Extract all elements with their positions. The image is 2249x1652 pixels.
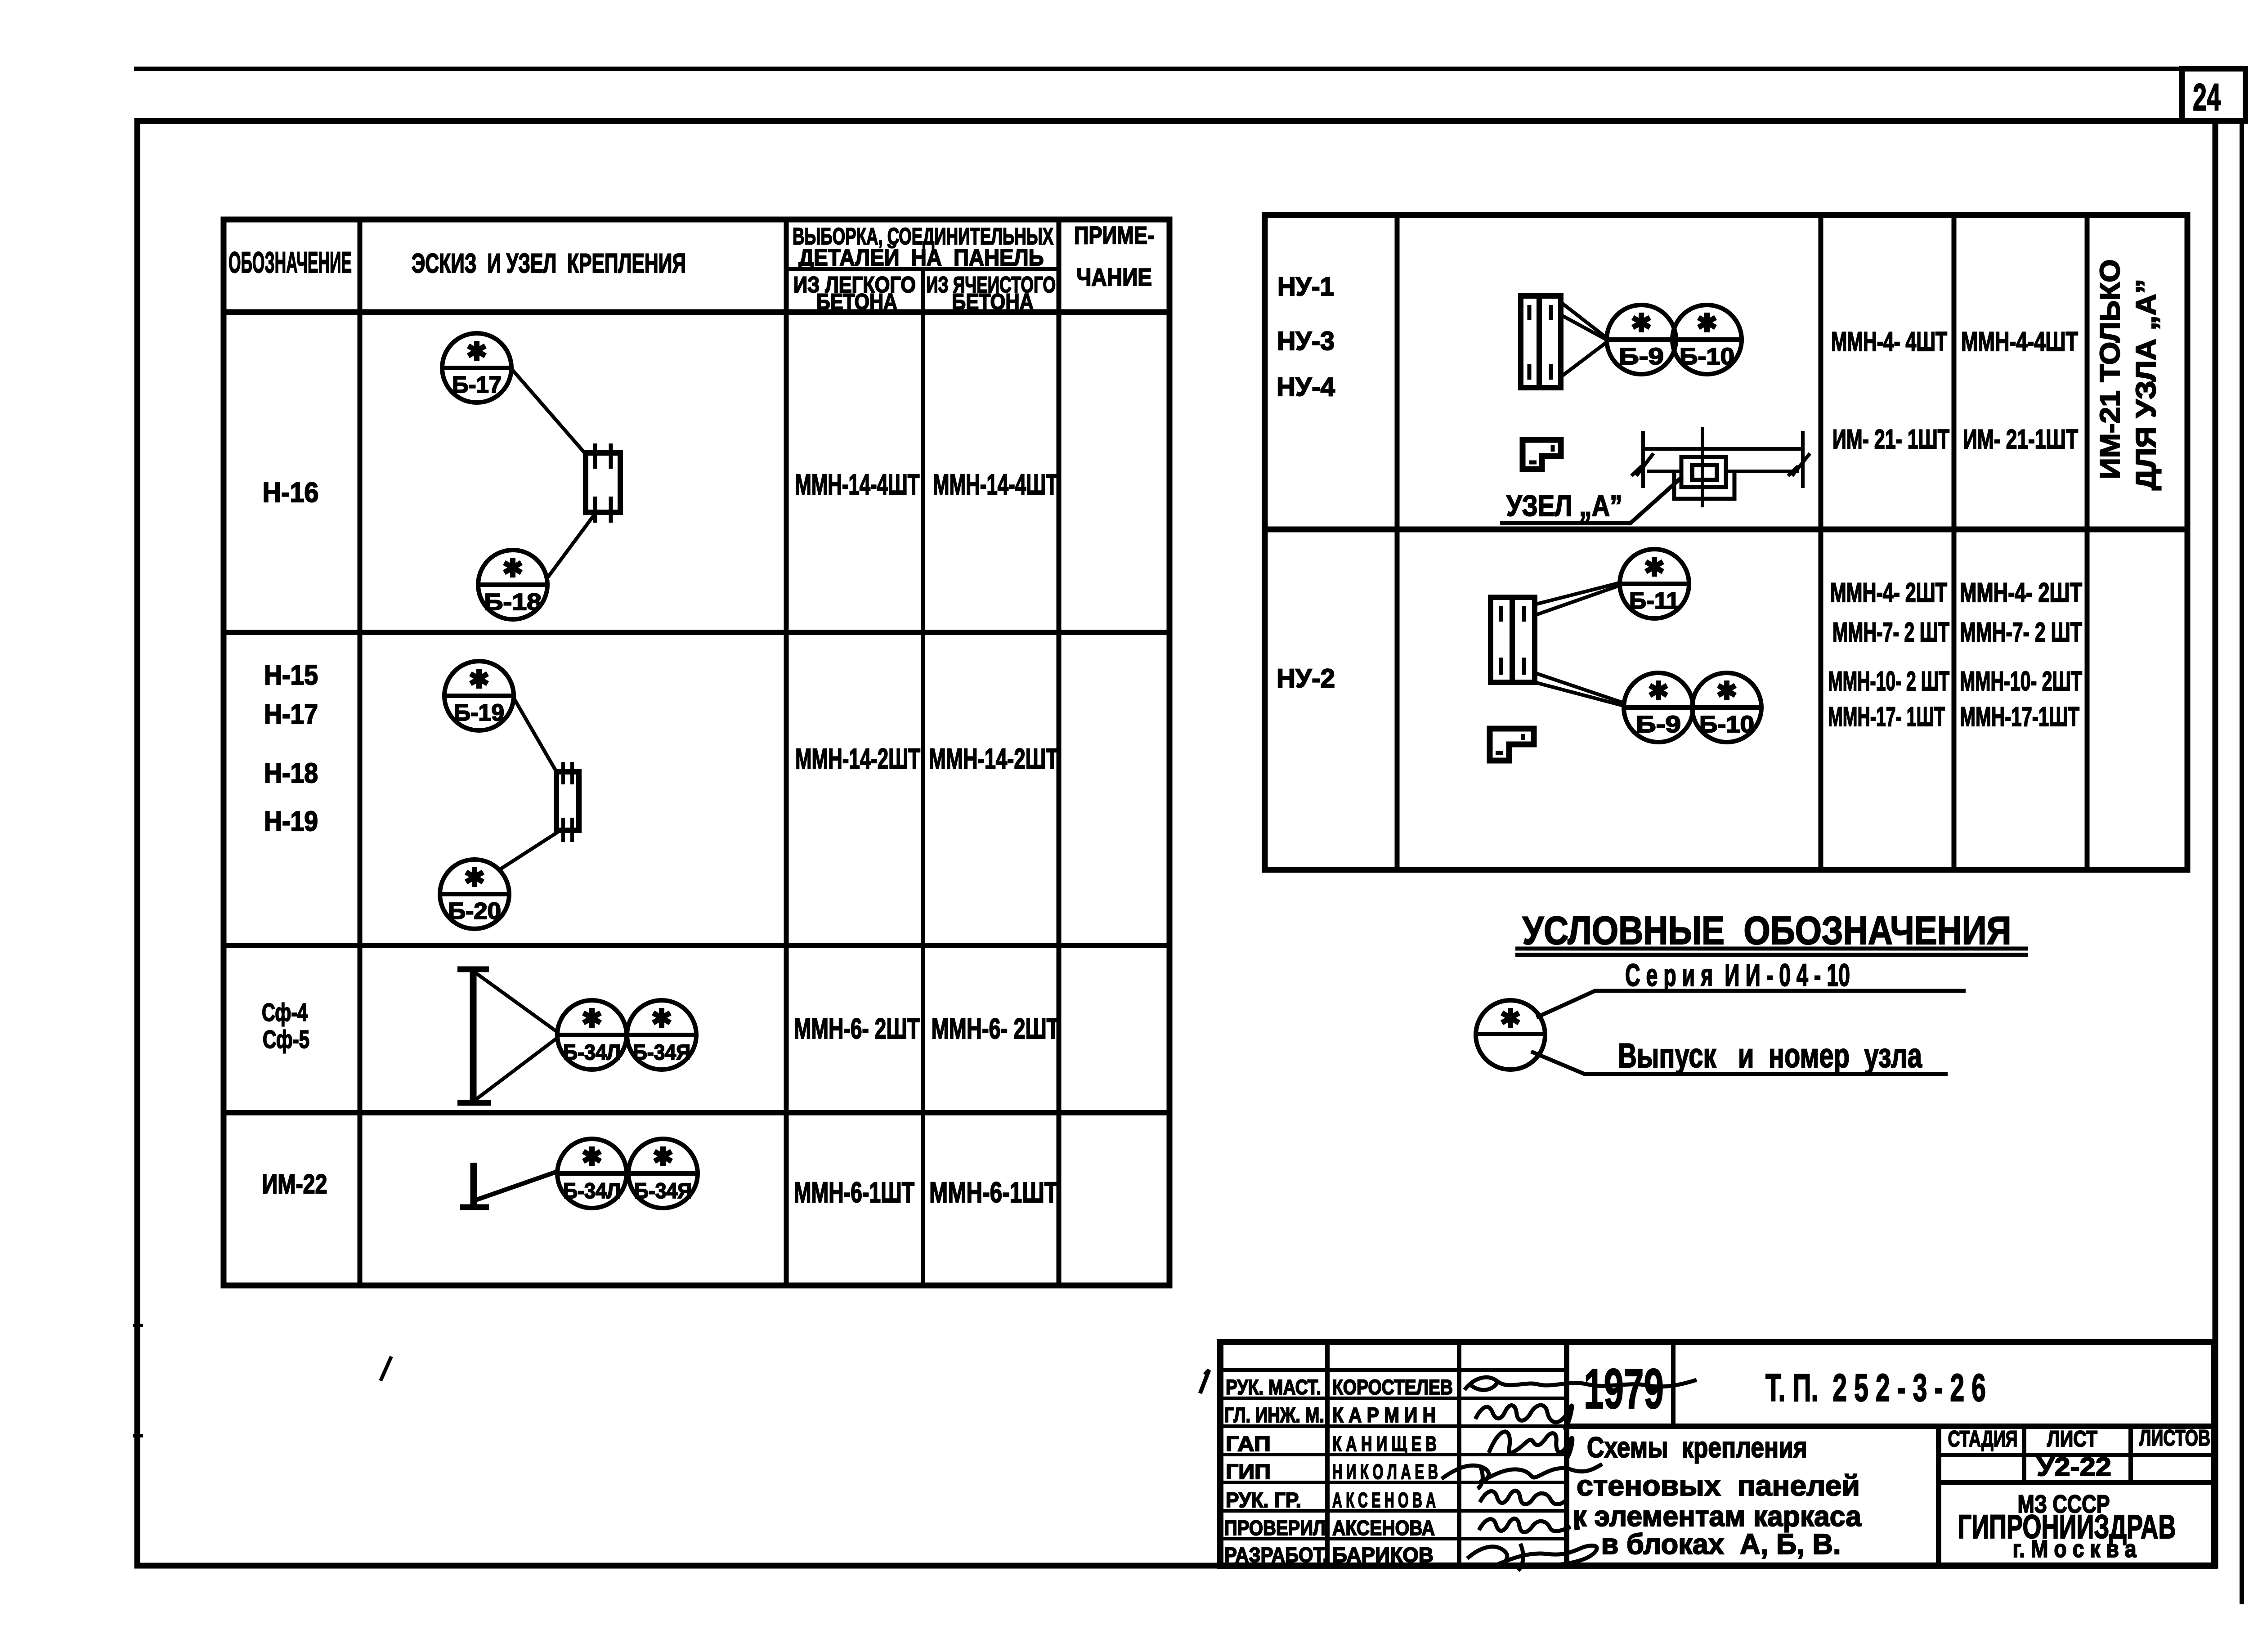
title block column line 3 xyxy=(1564,1342,1569,1566)
svg-text:К А Н И Щ Е В: К А Н И Щ Е В xyxy=(1332,1432,1437,1455)
svg-text:Б-9: Б-9 xyxy=(1636,712,1681,738)
row2 node circle Б-19 xyxy=(444,661,514,730)
svg-text:ДЛЯ УЗЛА „А”: ДЛЯ УЗЛА „А” xyxy=(2131,279,2162,490)
svg-text:НУ-2: НУ-2 xyxy=(1277,664,1335,693)
row1 angle bracket sketch xyxy=(1523,440,1561,469)
svg-text:Сф-4: Сф-4 xyxy=(262,998,308,1026)
row2 angle bracket sketch xyxy=(1490,729,1534,761)
svg-text:КОРОСТЕЛЕВ: КОРОСТЕЛЕВ xyxy=(1332,1375,1453,1399)
left table row line 1 xyxy=(224,630,1169,635)
signature Канищев xyxy=(1489,1432,1573,1461)
svg-text:ММН-17-1ШТ: ММН-17-1ШТ xyxy=(1960,702,2079,732)
svg-text:УСЛОВНЫЕ ОБОЗНАЧЕНИЯ: УСЛОВНЫЕ ОБОЗНАЧЕНИЯ xyxy=(1523,908,2012,953)
svg-text:ММН-7- 2 ШТ: ММН-7- 2 ШТ xyxy=(1832,617,1949,647)
right table column line col2/col3 xyxy=(1819,215,1823,870)
svg-text:стеновых панелей: стеновых панелей xyxy=(1577,1469,1860,1502)
svg-text:Сф-5: Сф-5 xyxy=(263,1025,309,1053)
svg-text:НУ-1: НУ-1 xyxy=(1277,272,1334,301)
signature Коростелев xyxy=(1465,1377,1697,1390)
left table column line col3/col4 xyxy=(1057,219,1062,1285)
svg-text:ДЕТАЛЕЙ НА ПАНЕЛЬ: ДЕТАЛЕЙ НА ПАНЕЛЬ xyxy=(799,244,1044,271)
row4 leader to Б-34Л xyxy=(476,1171,558,1200)
svg-text:ММН-14-4ШТ: ММН-14-4ШТ xyxy=(795,468,920,501)
svg-text:Б-17: Б-17 xyxy=(452,372,502,398)
row2 node circle Б-11 xyxy=(1620,549,1689,618)
svg-text:А К С Е Н О В А: А К С Е Н О В А xyxy=(1332,1488,1436,1512)
svg-text:Б-9: Б-9 xyxy=(1619,344,1664,370)
title block stage section divider xyxy=(1936,1426,1941,1566)
svg-text:ЧАНИЕ: ЧАНИЕ xyxy=(1076,263,1152,291)
title block column line 1 xyxy=(1325,1342,1330,1566)
svg-text:ММН-14-2ШТ: ММН-14-2ШТ xyxy=(795,743,920,775)
svg-text:ММН-14-4ШТ: ММН-14-4ШТ xyxy=(933,468,1058,501)
row1 node circle Б-9 xyxy=(1607,305,1676,374)
svg-text:ИМ- 21-1ШТ: ИМ- 21-1ШТ xyxy=(1963,424,2078,454)
stage header underline xyxy=(1939,1453,2214,1457)
svg-text:ИМ-21 ТОЛЬКО: ИМ-21 ТОЛЬКО xyxy=(2095,260,2126,479)
top border line xyxy=(134,67,2183,71)
svg-text:Б-10: Б-10 xyxy=(1699,712,1754,738)
svg-text:Б-34Л: Б-34Л xyxy=(563,1179,621,1203)
row1 leader panel to Б-18 xyxy=(547,515,594,578)
svg-text:ММН-10- 2 ШТ: ММН-10- 2 ШТ xyxy=(1828,666,1949,696)
row1 node circle Б-17 xyxy=(442,333,511,403)
svg-text:ММН-4- 2ШТ: ММН-4- 2ШТ xyxy=(1830,578,1947,608)
svg-text:ГАП: ГАП xyxy=(1226,1432,1271,1455)
left table row line 3 xyxy=(224,1110,1169,1115)
svg-text:РУК. ГР.: РУК. ГР. xyxy=(1226,1488,1301,1512)
svg-text:1979: 1979 xyxy=(1584,1358,1664,1420)
row1 leader Б-17 to panel xyxy=(512,369,584,452)
legend series leader line xyxy=(1537,991,1966,1017)
left table row line 2 xyxy=(224,943,1169,948)
svg-text:ЛИСТ: ЛИСТ xyxy=(2047,1426,2097,1451)
svg-text:ММН-6- 2ШТ: ММН-6- 2ШТ xyxy=(794,1012,920,1045)
row4 node circle Б-34Л xyxy=(557,1139,627,1208)
title block outer border xyxy=(1220,1342,2214,1566)
svg-text:Б-18: Б-18 xyxy=(484,589,542,615)
row2 leaders to Б-9 xyxy=(1535,673,1625,706)
right table column line col1/col2 xyxy=(1395,215,1400,870)
узел А detail sketch xyxy=(1631,427,1810,507)
svg-text:ПРИМЕ-: ПРИМЕ- xyxy=(1074,221,1154,249)
svg-text:АКСЕНОВА: АКСЕНОВА xyxy=(1332,1516,1435,1540)
row4 node circle Б-34Я xyxy=(628,1139,698,1208)
svg-text:ММН-4- 4ШТ: ММН-4- 4ШТ xyxy=(1831,327,1947,357)
title block column line 4 (1979 cell right) xyxy=(1671,1342,1676,1426)
title block ТП row bottom line xyxy=(1567,1424,2214,1429)
svg-text:БЕТОНА: БЕТОНА xyxy=(952,289,1034,314)
row2 node circle Б-20 xyxy=(440,860,509,929)
row1 leader lines to circles xyxy=(1561,302,1607,377)
row2 panel sketch xyxy=(556,762,579,842)
legend issue leader line xyxy=(1531,1052,1948,1074)
rotated note ИМ-21 только для узла А xyxy=(2095,259,2162,490)
title block row lines (left part) xyxy=(1220,1370,1567,1539)
outer right border line xyxy=(2240,122,2244,1604)
row3 I-beam sketch xyxy=(457,968,491,1105)
frame left tick 1 xyxy=(133,1324,143,1327)
row2 panel sketch xyxy=(1491,596,1535,682)
left table column line col1/col2 xyxy=(358,219,363,1285)
legend node circle symbol xyxy=(1476,1000,1545,1070)
svg-text:С е р и я И И - 0 4 - 10: С е р и я И И - 0 4 - 10 xyxy=(1625,958,1850,993)
svg-text:Б-34Я: Б-34Я xyxy=(633,1041,690,1065)
svg-text:Выпуск и номер узла: Выпуск и номер узла xyxy=(1618,1037,1922,1075)
svg-text:Б-10: Б-10 xyxy=(1680,344,1734,370)
svg-text:г. М о с к в а: г. М о с к в а xyxy=(2013,1536,2137,1562)
svg-text:ГИП: ГИП xyxy=(1226,1460,1271,1483)
svg-text:НУ-3: НУ-3 xyxy=(1277,327,1335,356)
row1 node circle Б-18 xyxy=(478,550,547,619)
svg-text:ЛИСТОВ: ЛИСТОВ xyxy=(2139,1425,2210,1451)
svg-text:Н-19: Н-19 xyxy=(264,806,318,837)
svg-text:ОБОЗНАЧЕНИЕ: ОБОЗНАЧЕНИЕ xyxy=(228,246,352,279)
svg-text:БЕТОНА: БЕТОНА xyxy=(816,289,897,314)
left table column line col2/col3 xyxy=(784,219,789,1285)
svg-text:Схемы крепления: Схемы крепления xyxy=(1587,1431,1807,1464)
svg-text:ГЛ. ИНЖ. М.: ГЛ. ИНЖ. М. xyxy=(1224,1403,1324,1427)
svg-text:СТАДИЯ: СТАДИЯ xyxy=(1948,1426,2018,1451)
svg-text:ММН-10- 2ШТ: ММН-10- 2ШТ xyxy=(1960,666,2082,696)
row1 panel sketch xyxy=(1521,295,1561,389)
svg-text:в блоках А, Б, В.: в блоках А, Б, В. xyxy=(1601,1528,1841,1560)
right table column line col4/col5 xyxy=(2085,215,2090,870)
svg-text:24: 24 xyxy=(2193,76,2221,118)
svg-text:НУ-4: НУ-4 xyxy=(1277,372,1335,402)
frame left tick 2 xyxy=(133,1434,143,1437)
left table sub-header top line xyxy=(786,267,1059,271)
right table outer border xyxy=(1265,215,2187,870)
stage rows bottom xyxy=(1939,1480,2214,1485)
узел А label underline and leader xyxy=(1500,477,1682,523)
row2 node circle Б-9 xyxy=(1624,673,1693,742)
svg-text:РАЗРАБОТ.: РАЗРАБОТ. xyxy=(1224,1543,1328,1567)
svg-text:ПРОВЕРИЛ: ПРОВЕРИЛ xyxy=(1224,1516,1326,1540)
left table header bottom line xyxy=(224,309,1169,315)
row2 leader Б-19 to panel xyxy=(513,697,556,771)
left table sub-column line col3a/col3b xyxy=(921,269,925,1285)
svg-text:Б-34Л: Б-34Л xyxy=(563,1041,621,1065)
svg-text:Б-11: Б-11 xyxy=(1629,588,1680,614)
svg-text:ММН-4- 2ШТ: ММН-4- 2ШТ xyxy=(1960,578,2082,608)
svg-text:ММН-7- 2 ШТ: ММН-7- 2 ШТ xyxy=(1960,617,2082,647)
signature Николаев xyxy=(1442,1464,1602,1489)
row3 node circle Б-34Л xyxy=(557,1000,627,1070)
svg-text:УЗЕЛ „А”: УЗЕЛ „А” xyxy=(1506,489,1622,522)
sheet number box xyxy=(2182,69,2245,121)
svg-text:Н-16: Н-16 xyxy=(263,477,319,508)
svg-text:К А Р М И Н: К А Р М И Н xyxy=(1332,1403,1436,1427)
svg-text:ММН-6-1ШТ: ММН-6-1ШТ xyxy=(929,1176,1058,1209)
svg-text:ИМ- 21- 1ШТ: ИМ- 21- 1ШТ xyxy=(1832,424,1949,454)
small tick mark below table xyxy=(381,1357,391,1381)
row4 anchor sketch xyxy=(460,1163,489,1207)
signature Кармин xyxy=(1475,1405,1572,1430)
svg-text:Б-19: Б-19 xyxy=(454,700,504,726)
svg-text:ММН-14-2ШТ: ММН-14-2ШТ xyxy=(929,743,1058,775)
row2 leader Б-20 to panel xyxy=(501,832,558,869)
right table column line col3/col4 xyxy=(1952,215,1957,870)
row3 leader bottom to Б-34Л xyxy=(475,1037,558,1100)
svg-text:ММН-6- 2ШТ: ММН-6- 2ШТ xyxy=(932,1012,1060,1045)
svg-text:БАРИКОВ: БАРИКОВ xyxy=(1332,1543,1434,1567)
svg-text:ММН-6-1ШТ: ММН-6-1ШТ xyxy=(794,1176,914,1209)
svg-text:ММН-17- 1ШТ: ММН-17- 1ШТ xyxy=(1828,702,1945,732)
row2 node circle Б-10 xyxy=(1692,673,1761,742)
row3 node circle Б-34Я xyxy=(627,1000,696,1070)
svg-text:Н И К О Л А Е В: Н И К О Л А Е В xyxy=(1332,1460,1438,1483)
legend title double underline xyxy=(1515,947,2028,951)
svg-text:Т. П. 2 5 2 - 3 - 2 6: Т. П. 2 5 2 - 3 - 2 6 xyxy=(1765,1366,1986,1410)
svg-text:У2-22: У2-22 xyxy=(2037,1452,2111,1482)
svg-text:ММН-4-4ШТ: ММН-4-4ШТ xyxy=(1961,327,2078,357)
row1 panel sketch xyxy=(586,443,620,523)
row3 leader top to Б-34Л xyxy=(475,972,558,1033)
svg-text:Б-20: Б-20 xyxy=(448,898,501,924)
svg-text:ИМ-22: ИМ-22 xyxy=(262,1169,327,1199)
row1 node circle Б-10 xyxy=(1672,305,1742,374)
title block column line 2 xyxy=(1457,1342,1461,1566)
svg-text:Б-34Я: Б-34Я xyxy=(634,1179,692,1203)
right table row line xyxy=(1265,527,2187,533)
svg-text:Н-18: Н-18 xyxy=(264,758,318,789)
row2 leaders to Б-11 xyxy=(1535,583,1619,615)
left table outer border xyxy=(224,219,1169,1285)
handwritten mark 1 xyxy=(1200,1370,1209,1393)
svg-text:ЭСКИЗ И УЗЕЛ КРЕПЛЕНИЯ: ЭСКИЗ И УЗЕЛ КРЕПЛЕНИЯ xyxy=(412,248,686,278)
stage cells verticals xyxy=(2022,1426,2026,1482)
signature Аксенова 2 xyxy=(1479,1518,1580,1532)
signature Бариков xyxy=(1467,1544,1597,1571)
svg-text:РУК. МАСТ.: РУК. МАСТ. xyxy=(1226,1375,1321,1399)
svg-text:Н-17: Н-17 xyxy=(264,699,318,730)
signature Аксенова xyxy=(1480,1491,1566,1504)
svg-text:Н-15: Н-15 xyxy=(264,660,318,691)
